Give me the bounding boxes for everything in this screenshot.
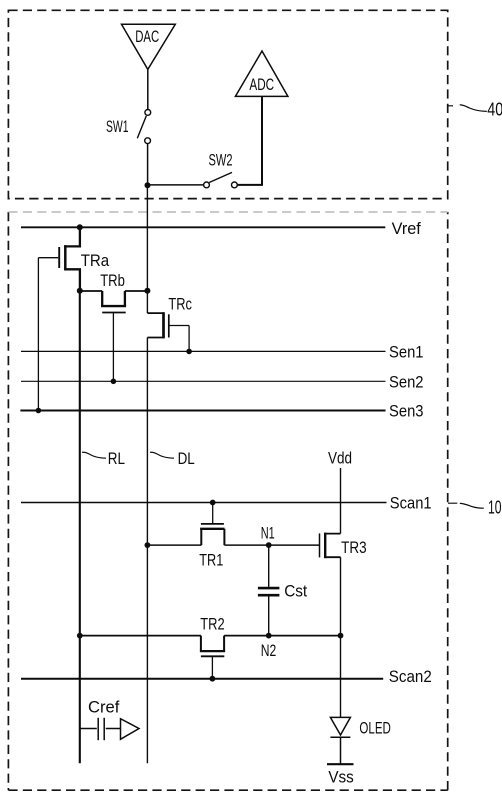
svg-text:DL: DL bbox=[178, 449, 195, 468]
label TR2 bbox=[200, 614, 224, 633]
node DL/TR1 junction dot bbox=[145, 542, 151, 548]
label TRb bbox=[100, 271, 125, 290]
label DAC bbox=[135, 27, 159, 46]
node Sen3/TRa gate dot bbox=[36, 408, 42, 414]
capacitor Cst bbox=[258, 545, 280, 636]
ADC triangle bbox=[235, 51, 288, 96]
svg-text:DAC: DAC bbox=[135, 27, 159, 46]
wire DAC apex to SW1 bbox=[147, 69, 149, 109]
wire TRc gate to Sen1 bbox=[188, 326, 190, 352]
wire Sen1 line bbox=[21, 350, 386, 352]
node TRb/RL junction dot bbox=[77, 288, 83, 294]
dashed border box 10 (pixel block) bbox=[8, 212, 447, 790]
svg-text:N2: N2 bbox=[261, 641, 277, 660]
transistor TR2 bbox=[200, 636, 225, 679]
wire DL to TR1 to N1 to TR3 gate bbox=[147, 544, 319, 546]
svg-text:Scan2: Scan2 bbox=[389, 667, 432, 686]
wire SW1 to junction bbox=[147, 144, 149, 185]
svg-text:TR1: TR1 bbox=[199, 551, 223, 570]
label Cref bbox=[88, 697, 120, 716]
dashed border box 10 top edge (faint) bbox=[8, 211, 447, 213]
label Vdd bbox=[328, 448, 352, 467]
svg-text:TRb: TRb bbox=[100, 271, 125, 290]
svg-text:Cref: Cref bbox=[88, 697, 120, 716]
svg-text:Cst: Cst bbox=[284, 582, 307, 601]
wire SW2 to ADC bbox=[237, 96, 262, 184]
transistor TRb bbox=[80, 291, 148, 313]
label Sen2 bbox=[389, 372, 424, 391]
label TR3 bbox=[341, 538, 367, 557]
leader line to 40 bbox=[448, 105, 487, 112]
node TR3/OLED junction dot bbox=[338, 633, 344, 639]
svg-text:TRc: TRc bbox=[168, 294, 192, 313]
diode OLED bbox=[330, 717, 350, 764]
label 10 bbox=[488, 498, 502, 518]
svg-text:Sen3: Sen3 bbox=[389, 402, 424, 421]
svg-text:Scan1: Scan1 bbox=[390, 493, 432, 512]
node Scan1/TR1 gate dot bbox=[210, 500, 216, 506]
wire TRa gate to Sen3 bbox=[37, 258, 39, 411]
DAC U-DAC triangle bbox=[122, 24, 176, 69]
svg-text:RL: RL bbox=[108, 449, 125, 468]
wire N2 line down to OLED bbox=[340, 636, 342, 718]
label Vss bbox=[328, 767, 353, 786]
node Sen2/TRb gate dot bbox=[111, 379, 117, 385]
label OLED bbox=[359, 718, 391, 737]
node TRb/DL junction dot bbox=[144, 288, 150, 294]
wire Vdd vertical to TR3 bbox=[340, 468, 342, 534]
wire Scan2 line bbox=[21, 678, 383, 680]
svg-text:Vdd: Vdd bbox=[328, 448, 352, 467]
wire TRb gate to Sen2 bbox=[112, 313, 114, 382]
wire Scan1 line bbox=[21, 502, 387, 504]
svg-text:SW2: SW2 bbox=[209, 151, 233, 170]
svg-text:SW1: SW1 bbox=[106, 117, 129, 136]
svg-text:10: 10 bbox=[488, 498, 502, 518]
wire TR3 bottom to N2 line bbox=[340, 557, 342, 635]
leader and label DL bbox=[150, 452, 174, 458]
svg-text:Sen1: Sen1 bbox=[389, 342, 424, 361]
dashed border box 40 (driver block) bbox=[8, 10, 447, 198]
label N1 bbox=[261, 524, 275, 543]
svg-text:TRa: TRa bbox=[81, 251, 110, 270]
label Sen1 bbox=[389, 342, 424, 361]
transistor TRc bbox=[147, 312, 189, 338]
transistor TR3 bbox=[320, 533, 341, 559]
wire Vref line bbox=[21, 226, 385, 228]
label TR1 bbox=[199, 551, 223, 570]
node Cst/N2 junction dot bbox=[266, 633, 272, 639]
label Scan1 bbox=[390, 493, 432, 512]
label Scan2 bbox=[389, 667, 432, 686]
node Scan2/TR2 gate dot bbox=[210, 676, 216, 682]
wire RL vertical line bbox=[79, 291, 81, 764]
label Sen3 bbox=[389, 402, 424, 421]
svg-text:Vss: Vss bbox=[328, 767, 353, 786]
node RL/N2-line junction dot bbox=[77, 633, 83, 639]
label 40 bbox=[487, 100, 502, 120]
svg-text:Sen2: Sen2 bbox=[389, 372, 424, 391]
node N1 dot bbox=[266, 542, 272, 548]
label TRa bbox=[81, 251, 110, 270]
switch SW2 bbox=[204, 172, 238, 187]
svg-text:TR3: TR3 bbox=[341, 538, 367, 557]
junction dot SW1/SW2/DL bbox=[145, 182, 151, 188]
power Vss bar bbox=[327, 763, 354, 765]
svg-text:Vref: Vref bbox=[392, 219, 421, 238]
label TRc bbox=[168, 294, 192, 313]
wire Sen2 line bbox=[21, 380, 386, 382]
wire N2 horizontal line bbox=[80, 635, 341, 637]
node Vref/RL junction dot bbox=[77, 224, 83, 230]
wire Sen3 line bbox=[20, 410, 385, 412]
transistor TRa bbox=[38, 227, 80, 290]
node Sen1/TRc gate dot bbox=[186, 349, 192, 355]
svg-text:N1: N1 bbox=[261, 524, 275, 543]
wire DL segment from junction down to TRb node bbox=[146, 185, 148, 313]
leader and label RL bbox=[82, 452, 106, 458]
svg-text:OLED: OLED bbox=[359, 718, 391, 737]
label Cst bbox=[284, 582, 307, 601]
leader line to 10 bbox=[448, 503, 484, 508]
svg-text:40: 40 bbox=[487, 100, 502, 120]
wire DL vertical line (below TRc) bbox=[146, 338, 148, 764]
svg-text:TR2: TR2 bbox=[200, 614, 224, 633]
capacitor Cref with buffer bbox=[80, 718, 139, 740]
transistor TR1 bbox=[200, 503, 224, 546]
label Vref bbox=[392, 219, 421, 238]
wire junction to SW2 bbox=[148, 184, 204, 186]
svg-text:ADC: ADC bbox=[249, 75, 274, 94]
label SW2 bbox=[209, 151, 233, 170]
label ADC bbox=[249, 75, 274, 94]
label SW1 bbox=[106, 117, 129, 136]
switch SW1 bbox=[137, 110, 150, 144]
label N2 bbox=[261, 641, 277, 660]
